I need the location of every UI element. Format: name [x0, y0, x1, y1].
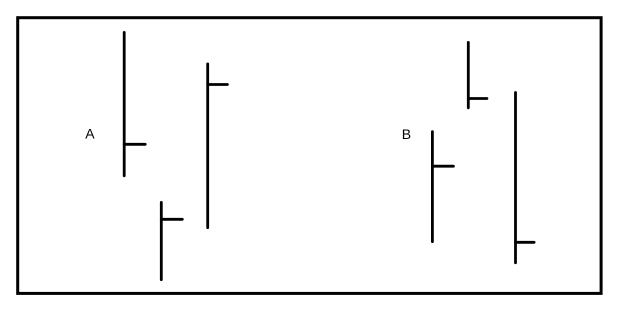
bar A2 vertical — [206, 64, 209, 228]
bar B2 vertical — [431, 132, 434, 242]
bar B1 vertical — [467, 42, 470, 107]
bar B3 tick — [516, 241, 535, 244]
bar A3 tick — [161, 218, 182, 221]
svg-text:A: A — [85, 126, 95, 142]
bar A3 vertical — [160, 202, 163, 279]
bar B3 vertical — [514, 93, 517, 263]
svg-text:B: B — [402, 126, 411, 142]
bar A1 vertical — [123, 32, 126, 175]
bar B1 tick — [468, 97, 487, 100]
bar A1 tick — [124, 143, 145, 146]
bar A2 tick — [208, 83, 228, 86]
bar B2 tick — [432, 165, 453, 168]
